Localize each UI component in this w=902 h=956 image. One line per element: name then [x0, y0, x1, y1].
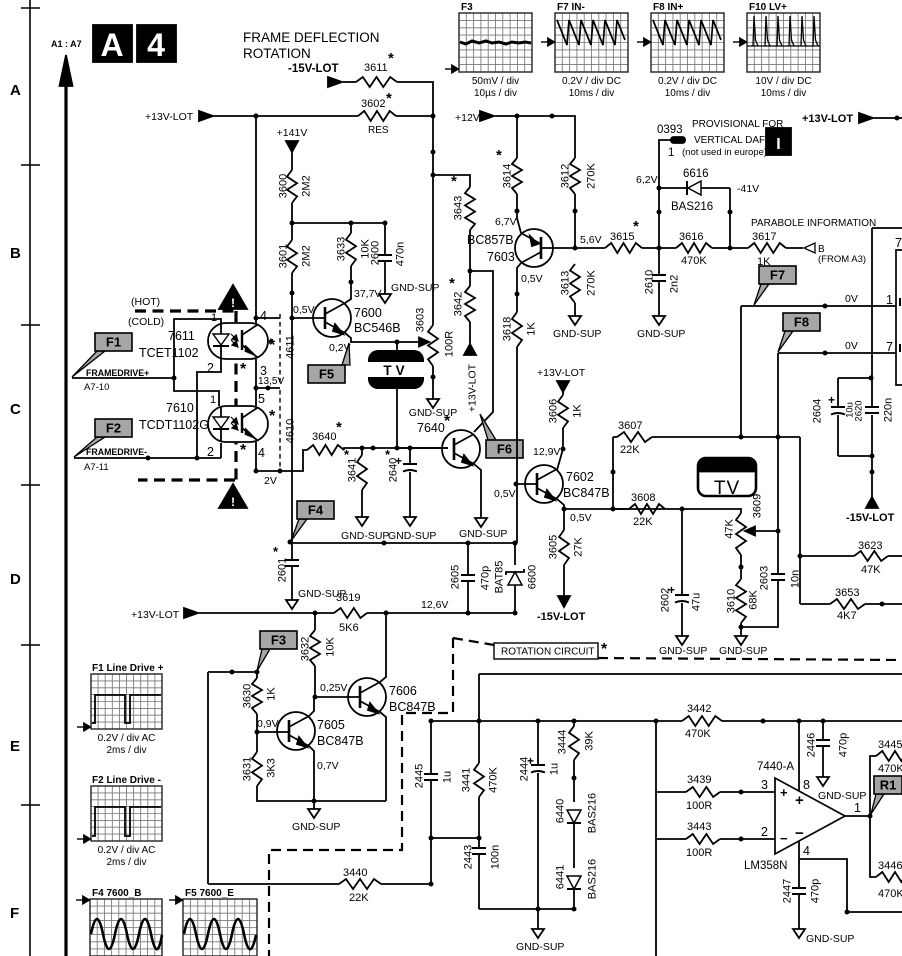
svg-text:BAS216: BAS216	[671, 201, 713, 213]
svg-text:*: *	[444, 413, 451, 430]
svg-text:GND-SUP: GND-SUP	[719, 645, 767, 657]
svg-text:-15V-LOT: -15V-LOT	[537, 611, 586, 623]
svg-text:6,7V: 6,7V	[495, 216, 517, 228]
star 7611 right	[269, 337, 276, 354]
wire 3642 node to 7640 collector	[470, 271, 493, 432]
svg-text:7602: 7602	[566, 470, 594, 484]
svg-text:3439: 3439	[687, 774, 711, 786]
label TCDT1102G	[139, 418, 209, 432]
svg-text:3610: 3610	[726, 589, 738, 613]
svg-text:BC546B: BC546B	[354, 321, 401, 335]
svg-text:6616: 6616	[683, 168, 709, 180]
wire 3607 left drop	[611, 437, 616, 509]
svg-text:TV: TV	[714, 478, 740, 499]
svg-text:GND-SUP: GND-SUP	[659, 645, 707, 657]
scope F4 7600_B box	[76, 888, 162, 956]
svg-text:2ms / div: 2ms / div	[106, 745, 146, 756]
pin 4 7610	[258, 446, 265, 460]
svg-text:7611: 7611	[168, 329, 195, 343]
node row 909	[479, 907, 577, 912]
wire 3609 wiper to F8	[753, 529, 781, 534]
row letter A	[10, 82, 21, 99]
svg-text:F5 7600_E: F5 7600_E	[185, 888, 234, 899]
wire main rail 674	[479, 673, 902, 675]
node row F3	[208, 670, 260, 675]
svg-text:F7: F7	[770, 268, 785, 283]
wire cap rails	[838, 376, 875, 459]
row letter C	[10, 401, 21, 418]
resistor 3606	[548, 392, 584, 428]
capacitor 2447	[782, 859, 822, 929]
svg-text:0,5V: 0,5V	[293, 304, 315, 316]
scope F1 Line Drive + box	[77, 663, 164, 756]
svg-text:R1: R1	[880, 778, 897, 793]
supply +13V-LOT 3606	[537, 367, 586, 392]
resistor 3640	[307, 419, 344, 455]
label 7600 base voltage	[293, 304, 315, 316]
resistor 3643	[451, 173, 475, 230]
svg-text:10V / div DC: 10V / div DC	[755, 76, 811, 87]
ground 2640 GND-SUP	[388, 517, 436, 542]
svg-text:100n: 100n	[490, 845, 502, 869]
transistor Q7602	[525, 465, 610, 503]
wire 7606 emitter	[380, 712, 386, 801]
supply -15V-LOT feed	[288, 63, 342, 87]
svg-text:F5: F5	[319, 367, 334, 382]
wire 7603 collector	[515, 263, 543, 312]
svg-text:470K: 470K	[488, 766, 500, 792]
svg-text:+: +	[795, 792, 804, 809]
wire 3611 to node	[397, 82, 433, 116]
svg-text:3606: 3606	[548, 399, 560, 423]
svg-text:TV: TV	[383, 363, 408, 378]
flag F3	[257, 631, 297, 671]
svg-text:2445: 2445	[414, 764, 426, 788]
svg-text:GND-SUP: GND-SUP	[553, 328, 601, 340]
svg-text:F3: F3	[461, 2, 473, 13]
svg-text:*: *	[388, 50, 394, 67]
capacitor 2601	[273, 543, 299, 600]
star 7610 right	[269, 408, 276, 425]
svg-text:270K: 270K	[586, 269, 598, 295]
svg-text:*: *	[240, 361, 247, 378]
pin 3 7611	[260, 364, 267, 378]
label 6,2V	[636, 174, 658, 186]
flag F1	[72, 333, 132, 377]
wire branch x656	[655, 721, 657, 956]
wire F7 drop	[739, 306, 744, 440]
svg-text:+12V: +12V	[455, 112, 480, 124]
supply +13V-LOT to 3642	[464, 322, 479, 412]
label 7610	[166, 401, 194, 415]
svg-text:3615: 3615	[610, 231, 634, 243]
svg-text:470K: 470K	[685, 728, 711, 740]
wire 7611 emitter 13,5V node	[254, 359, 281, 406]
wire 3607 to corner	[652, 436, 800, 438]
svg-text:*: *	[601, 641, 608, 658]
sheet label 4	[137, 25, 176, 63]
potentiometer 3603	[415, 308, 456, 366]
svg-text:4: 4	[258, 446, 265, 460]
resistor 3617	[748, 231, 803, 268]
svg-text:+13V-LOT: +13V-LOT	[145, 111, 194, 123]
title	[243, 30, 380, 61]
svg-text:GND-SUP: GND-SUP	[818, 790, 866, 802]
resistor 3641	[344, 447, 367, 490]
svg-text:A7-11: A7-11	[84, 462, 109, 473]
svg-text:3605: 3605	[548, 535, 560, 559]
svg-text:FRAMEDRIVE+: FRAMEDRIVE+	[86, 368, 149, 378]
supply +12V feed	[455, 111, 575, 158]
svg-text:4: 4	[803, 844, 810, 858]
svg-text:27K: 27K	[573, 537, 585, 557]
svg-text:GND-SUP: GND-SUP	[637, 328, 685, 340]
supply +141V	[277, 127, 308, 170]
row letter D	[10, 571, 21, 588]
capacitor 2603	[741, 531, 802, 627]
row letter B	[10, 245, 21, 262]
svg-text:50mV / div: 50mV / div	[472, 76, 519, 87]
wire 7602 emitter row	[557, 499, 741, 524]
resistor 3614	[496, 116, 522, 194]
svg-text:GND-SUP: GND-SUP	[388, 530, 436, 542]
node row F4	[288, 318, 518, 546]
node row 223	[292, 221, 388, 226]
svg-text:*: *	[336, 419, 342, 436]
ground row 7605 GND-SUP	[292, 801, 340, 833]
supply +13V-LOT feed left	[145, 111, 213, 123]
svg-text:1: 1	[886, 293, 893, 307]
resistor 3613	[560, 264, 598, 303]
svg-text:A1 : A7: A1 : A7	[51, 39, 82, 49]
svg-text:3617: 3617	[752, 231, 776, 243]
wire right column to 3623	[798, 437, 803, 604]
wire 7611 collector node	[254, 114, 281, 321]
potentiometer 3609	[724, 494, 764, 555]
svg-text:10ms / div: 10ms / div	[569, 88, 615, 99]
wire 3606 to 7602 collector	[533, 428, 566, 470]
svg-text:BC847B: BC847B	[317, 734, 364, 748]
svg-text:1u: 1u	[442, 771, 454, 783]
svg-text:4611: 4611	[285, 335, 297, 359]
svg-text:-15V-LOT: -15V-LOT	[846, 512, 895, 524]
svg-text:(COLD): (COLD)	[128, 316, 164, 328]
svg-text:470n: 470n	[395, 242, 407, 266]
resistor 3623	[800, 540, 902, 576]
capacitor 2605	[450, 543, 492, 613]
flag F2	[74, 419, 132, 457]
wire node to 3643	[433, 175, 470, 187]
pin 3 op-amp	[761, 778, 768, 792]
scope F7 IN- waveform box	[541, 2, 628, 99]
svg-text:+: +	[527, 754, 534, 768]
op-amp U7440-A LM358N	[744, 761, 845, 872]
svg-text:F2: F2	[106, 421, 121, 436]
svg-text:+: +	[828, 393, 835, 407]
resistor 3442	[682, 703, 722, 740]
svg-text:7: 7	[895, 236, 902, 250]
wire op-amp output	[845, 801, 873, 819]
capacitor 2443	[463, 845, 502, 909]
wire 3631 to ground row	[257, 786, 386, 804]
svg-text:1K: 1K	[266, 687, 278, 701]
page border left	[29, 0, 31, 956]
wire FRAMEDRIVE-	[74, 456, 221, 461]
svg-text:7605: 7605	[317, 718, 345, 732]
wire 3601 to base node	[290, 273, 295, 318]
svg-text:470p: 470p	[810, 879, 822, 903]
svg-text:3616: 3616	[679, 231, 703, 243]
svg-text:3445: 3445	[878, 739, 902, 751]
svg-text:3602: 3602	[361, 98, 385, 110]
border tick 3	[21, 324, 40, 326]
svg-text:F1: F1	[106, 335, 121, 350]
svg-text:(HOT): (HOT)	[131, 296, 160, 308]
svg-text:2ms / div: 2ms / div	[106, 857, 146, 868]
svg-text:22K: 22K	[620, 444, 640, 456]
capacitor 2600	[370, 223, 407, 294]
svg-text:LM358N: LM358N	[744, 860, 787, 872]
svg-text:0,5V: 0,5V	[521, 273, 543, 285]
svg-text:(FROM A3): (FROM A3)	[818, 254, 866, 265]
svg-text:12,6V: 12,6V	[421, 599, 448, 611]
transistor Q7605	[277, 712, 364, 750]
svg-text:TCDT1102G: TCDT1102G	[139, 418, 209, 432]
resistor 3443	[656, 821, 775, 859]
svg-text:*: *	[633, 218, 639, 235]
svg-text:I: I	[776, 136, 780, 153]
wire parabole line	[872, 227, 902, 229]
warning triangle bottom	[219, 484, 247, 509]
svg-text:(not used in europe): (not used in europe)	[682, 147, 767, 158]
svg-text:4: 4	[260, 309, 267, 323]
svg-text:1: 1	[211, 312, 217, 324]
svg-text:+: +	[395, 454, 402, 468]
svg-text:0,25V: 0,25V	[320, 682, 347, 694]
wire node to pot 3603	[431, 116, 436, 325]
node row 12,6V	[313, 599, 518, 616]
wire 7605 emitter	[309, 746, 339, 801]
resistor 3642	[449, 275, 475, 322]
svg-text:3K3: 3K3	[266, 758, 278, 778]
resistor 3618	[502, 312, 538, 347]
svg-text:BAS216: BAS216	[587, 859, 599, 899]
wire 3643 to node	[468, 230, 473, 286]
pin 2 7610	[207, 445, 214, 459]
resistor 3619	[334, 592, 367, 634]
wire emitter to 7640 base	[397, 342, 448, 448]
wire 3618 to 7602 base	[513, 347, 519, 546]
svg-text:7440-A: 7440-A	[757, 761, 794, 773]
svg-text:+13V-LOT: +13V-LOT	[131, 609, 180, 621]
supply +13V-LOT top right	[802, 113, 902, 125]
svg-text:3612: 3612	[560, 164, 572, 188]
wire 7640 emitter to ground	[474, 464, 481, 518]
svg-text:*: *	[240, 442, 247, 459]
svg-text:3633: 3633	[336, 237, 348, 261]
svg-text:-15V-LOT: -15V-LOT	[288, 63, 338, 75]
svg-text:*: *	[386, 90, 392, 107]
svg-text:3640: 3640	[312, 431, 336, 443]
supply +13V-LOT feed F3	[131, 608, 315, 621]
svg-text:2601: 2601	[277, 558, 289, 582]
svg-text:1K: 1K	[526, 322, 538, 336]
isolation barrier dashed	[135, 311, 236, 480]
resistor 3630	[242, 672, 278, 714]
svg-text:F8 IN+: F8 IN+	[653, 2, 683, 13]
svg-text:ROTATION CIRCUIT: ROTATION CIRCUIT	[501, 647, 595, 658]
border tick 4	[21, 484, 40, 486]
ground 3613 GND-SUP	[553, 303, 601, 340]
wire 3602 output node	[396, 114, 436, 119]
svg-text:39K: 39K	[584, 731, 596, 751]
svg-text:3631: 3631	[242, 757, 254, 781]
svg-text:47K: 47K	[861, 564, 881, 576]
svg-text:7603: 7603	[487, 250, 515, 264]
ground 2446 GND-SUP	[817, 777, 866, 802]
wire F+ to 7610 anode	[174, 378, 219, 406]
pin 8 op-amp	[799, 721, 810, 792]
svg-text:2: 2	[207, 445, 214, 459]
flag F7	[754, 266, 796, 305]
svg-text:+13V-LOT: +13V-LOT	[802, 113, 853, 125]
svg-text:2620: 2620	[854, 400, 865, 421]
svg-text:3: 3	[761, 778, 768, 792]
svg-text:RES: RES	[368, 125, 389, 136]
resistor 3631	[242, 732, 278, 786]
svg-text:C: C	[10, 401, 21, 418]
scope F5 7600_E box	[169, 888, 257, 956]
capacitor 2602	[660, 509, 703, 636]
ground 2447 GND-SUP	[793, 929, 854, 945]
svg-text:*: *	[451, 173, 457, 190]
flag F6	[480, 414, 523, 458]
resistor 3615	[575, 218, 676, 253]
wire 7610 pin4 2V row	[254, 442, 308, 474]
svg-text:7640: 7640	[417, 421, 445, 435]
border tick 1	[21, 7, 40, 9]
svg-text:10ms / div: 10ms / div	[665, 88, 711, 99]
node row 884	[208, 883, 431, 885]
svg-text:3613: 3613	[560, 271, 572, 295]
svg-text:3614: 3614	[502, 164, 514, 188]
svg-text:12,9V: 12,9V	[533, 446, 560, 458]
warning triangle top	[219, 285, 247, 310]
svg-text:10K: 10K	[325, 637, 337, 657]
svg-text:6,2V: 6,2V	[636, 174, 658, 186]
ground 2601 GND-SUP	[286, 588, 346, 609]
connector box right	[895, 236, 902, 385]
svg-text:3601: 3601	[278, 244, 290, 268]
capacitor 2444	[519, 721, 561, 909]
pin 4 op-amp	[799, 841, 810, 859]
svg-text:3653: 3653	[835, 587, 859, 599]
svg-text:3619: 3619	[336, 592, 360, 604]
node row 721	[429, 719, 902, 724]
wire F3 to rotation	[207, 672, 209, 884]
svg-text:47K: 47K	[724, 519, 736, 539]
scope F8 IN+ waveform box	[637, 2, 724, 99]
svg-text:3611: 3611	[364, 62, 388, 74]
wire 7605 collector	[309, 682, 347, 716]
pin 4 7611	[260, 309, 267, 323]
svg-text:100R: 100R	[444, 331, 456, 357]
wire 3640 to 7640 base	[344, 446, 448, 451]
pad 0393	[657, 124, 685, 159]
label A7-11	[84, 462, 109, 473]
resistor 3441	[461, 721, 500, 797]
wire parabole vertical	[871, 228, 873, 378]
label HOT	[131, 296, 160, 308]
flag R1	[871, 776, 902, 814]
svg-text:2V: 2V	[264, 475, 277, 487]
svg-text:GND-SUP: GND-SUP	[292, 821, 340, 833]
svg-text:2600: 2600	[370, 241, 382, 265]
svg-text:3441: 3441	[461, 768, 473, 792]
svg-text:F10 LV+: F10 LV+	[749, 2, 787, 13]
svg-text:1u: 1u	[549, 763, 561, 775]
bus arrow A1:A7	[51, 39, 82, 956]
wire 7611 pin4 body	[255, 318, 257, 324]
svg-text:2M2: 2M2	[301, 175, 313, 196]
wire 7602 base	[494, 484, 537, 500]
wire rail drop x480	[477, 674, 482, 724]
wire 3632 to 0,25V node	[313, 666, 318, 700]
svg-text:2M2: 2M2	[301, 245, 313, 266]
pin 5 7610	[258, 392, 265, 406]
star 7611 bottom	[240, 361, 247, 378]
svg-text:470K: 470K	[681, 255, 707, 267]
svg-text:10µs / div: 10µs / div	[474, 88, 517, 99]
wire 3603 to ground	[431, 366, 436, 399]
svg-text:BC847B: BC847B	[563, 486, 610, 500]
transistor Q7600	[313, 299, 401, 337]
svg-text:GND-SUP: GND-SUP	[341, 530, 389, 542]
svg-text:3603: 3603	[415, 308, 427, 332]
wire 7600 base	[290, 316, 326, 321]
svg-text:0,5V: 0,5V	[494, 488, 516, 500]
pin 1 7611	[211, 312, 217, 324]
svg-text:3630: 3630	[242, 684, 254, 708]
sheet label A	[93, 25, 132, 63]
ground 2602 GND-SUP	[659, 636, 707, 657]
svg-text:0,7V: 0,7V	[317, 760, 339, 772]
svg-text:3632: 3632	[300, 637, 312, 661]
svg-text:270K: 270K	[586, 162, 598, 188]
svg-text:PARABOLE INFORMATION: PARABOLE INFORMATION	[751, 218, 876, 229]
svg-text:3623: 3623	[858, 540, 882, 552]
supply -15V-LOT right	[846, 456, 895, 524]
resistor 3607	[613, 420, 652, 456]
wire pin4 node	[799, 859, 902, 915]
svg-text:F6: F6	[497, 442, 512, 457]
svg-text:2: 2	[207, 361, 214, 375]
capacitor 2445	[414, 721, 454, 838]
label A7-10	[84, 382, 109, 393]
svg-text:0.2V / div DC: 0.2V / div DC	[658, 76, 717, 87]
node row 838	[429, 797, 482, 848]
node row 0V pin1	[741, 293, 896, 309]
svg-text:5: 5	[258, 392, 265, 406]
scope F3 waveform box	[445, 2, 532, 99]
pin 2 7611	[207, 361, 214, 375]
svg-text:−: −	[780, 831, 788, 846]
svg-text:3609: 3609	[752, 494, 764, 518]
ground 3610 GND-SUP	[719, 623, 767, 657]
svg-text:F3: F3	[271, 633, 286, 648]
wire 3633 leads	[349, 223, 354, 285]
svg-text:1K: 1K	[572, 404, 584, 418]
